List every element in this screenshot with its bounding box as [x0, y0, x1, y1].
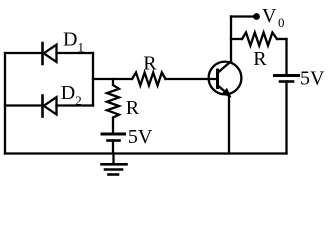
- svg-text:R: R: [143, 53, 157, 75]
- wire right vertical to battery B2: [285, 39, 287, 74]
- svg-text:R: R: [253, 48, 267, 70]
- svg-text:5V: 5V: [300, 67, 325, 89]
- diode D1: [43, 43, 57, 64]
- battery B1 (5V bias cell): [102, 134, 125, 141]
- wire battery B2 to bottom bus: [285, 82, 287, 154]
- svg-text:R: R: [126, 97, 140, 119]
- wire collector node to R3: [231, 38, 242, 40]
- ground: [102, 154, 127, 175]
- wire divider stub down from base line: [112, 79, 114, 85]
- wire bottom bus: [5, 152, 287, 154]
- svg-text:5V: 5V: [128, 126, 153, 148]
- wire collector vertical: [230, 17, 232, 62]
- battery B2 (5V collector supply): [275, 76, 299, 82]
- wire bottom branch left (left bus to D2 cathode): [5, 104, 43, 106]
- wire node to base resistor: [93, 78, 132, 80]
- wire right vertical joining D1 and D2 branches: [92, 53, 94, 106]
- node Vo terminal dot: [253, 13, 260, 20]
- wire output stub: [231, 15, 257, 17]
- wire bottom branch right (D2 anode to node): [57, 104, 94, 106]
- wire left vertical bus: [4, 53, 6, 154]
- wire top branch right (D1 anode to node): [57, 52, 94, 54]
- diode D2: [43, 96, 57, 117]
- transistor Q1 (NPN BJT): [209, 61, 242, 96]
- resistor R3 (collector load resistor): [242, 33, 277, 46]
- wire base resistor to transistor base: [166, 78, 218, 80]
- svg-text:D2: D2: [61, 82, 82, 108]
- wire top branch left (left bus to D1 cathode): [5, 52, 43, 54]
- svg-text:D1: D1: [63, 29, 84, 55]
- resistor R2 (vertical pull-down resistor): [107, 85, 119, 118]
- wire battery B1 to bottom bus: [112, 141, 114, 154]
- wire R3 to right corner: [277, 38, 287, 40]
- wire R2 to battery B1: [112, 118, 114, 133]
- wire emitter vertical: [228, 94, 230, 154]
- resistor R1 (series base resistor): [132, 73, 166, 86]
- svg-text:V0: V0: [262, 5, 284, 30]
